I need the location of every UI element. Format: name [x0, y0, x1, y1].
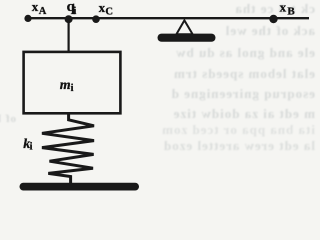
svg-text:i: i: [73, 6, 76, 17]
svg-text:C: C: [105, 6, 113, 17]
svg-text:m: m: [60, 78, 71, 93]
svg-text:x: x: [280, 0, 287, 15]
svg-text:i: i: [30, 142, 33, 153]
svg-text:A: A: [39, 6, 47, 17]
svg-text:x: x: [32, 0, 39, 14]
svg-text:i: i: [71, 83, 74, 94]
svg-text:B: B: [287, 5, 295, 17]
